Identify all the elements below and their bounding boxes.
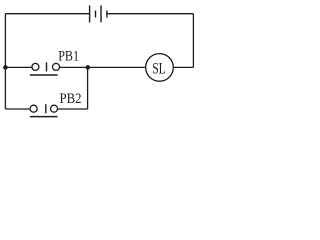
- battery B1 plate short 2: [106, 11, 108, 18]
- pushbutton PB2 contact circle left: [30, 105, 37, 112]
- node junction dot middle: [86, 65, 91, 70]
- wire PB2 branch right: [58, 108, 88, 110]
- pushbutton PB2 bridge bar: [30, 116, 58, 118]
- wire PB1 branch left: [5, 66, 31, 68]
- wire top-left segment: [5, 13, 89, 15]
- battery B1 plate long 2: [100, 5, 102, 22]
- wire PB2 riser: [87, 67, 89, 109]
- pushbutton PB1 contact circle right: [53, 63, 60, 70]
- wire PB1 branch right: [60, 66, 88, 68]
- pushbutton PB1 contact circle left: [32, 63, 39, 70]
- lamp SL circle: [146, 54, 174, 82]
- pushbutton PB1 plunger: [46, 62, 48, 71]
- svg-text:SL: SL: [152, 60, 166, 77]
- battery B1 plate short 1: [95, 11, 97, 18]
- wire junction to lamp: [88, 66, 146, 68]
- svg-text:PB1: PB1: [58, 48, 79, 64]
- node junction dot left: [3, 65, 8, 70]
- wire PB2 branch left: [5, 108, 30, 110]
- wire top-right segment: [107, 13, 193, 15]
- svg-text:PB2: PB2: [60, 91, 82, 107]
- wire lamp to right rail: [173, 66, 193, 68]
- pushbutton PB1 bridge bar: [30, 74, 58, 76]
- battery B1 plate long 1: [89, 5, 91, 22]
- pushbutton PB2 plunger: [45, 104, 47, 113]
- wire left rail: [4, 14, 6, 109]
- wire right rail: [192, 14, 194, 68]
- pushbutton PB2 contact circle right: [51, 105, 58, 112]
